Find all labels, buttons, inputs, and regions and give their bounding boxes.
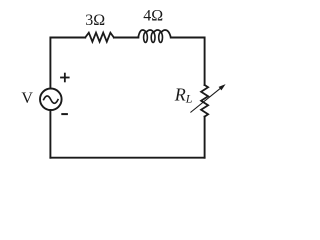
wire top-right (inductor to corner) — [171, 38, 205, 86]
wire between resistor and inductor — [114, 37, 138, 39]
source V circle — [40, 89, 62, 111]
wire top-left (corner to resistor) — [50, 38, 85, 89]
variable resistor RL zigzag — [201, 85, 208, 117]
wire right-bottom (RL to corner) — [204, 117, 206, 158]
svg-text:V: V — [21, 90, 33, 107]
inductor L1 bottom loop 3 — [159, 32, 163, 42]
arrow of variable resistor RL — [190, 84, 225, 112]
svg-text:4Ω: 4Ω — [143, 8, 163, 25]
resistor R1 3ohm zigzag — [85, 33, 114, 42]
inductor L1 bottom loop 2 — [151, 32, 155, 42]
inductor L1 bottom loop 1 — [144, 32, 148, 42]
svg-text:3Ω: 3Ω — [85, 12, 105, 29]
wire bottom-left (corner up to source) — [49, 110, 51, 158]
wire bottom — [50, 157, 204, 159]
plus sign of source — [60, 73, 70, 83]
inductor L1 4ohm coil humps — [138, 30, 171, 37]
minus sign of source — [61, 113, 68, 115]
source V sine wave — [44, 96, 58, 103]
svg-text:RL: RL — [174, 85, 193, 106]
